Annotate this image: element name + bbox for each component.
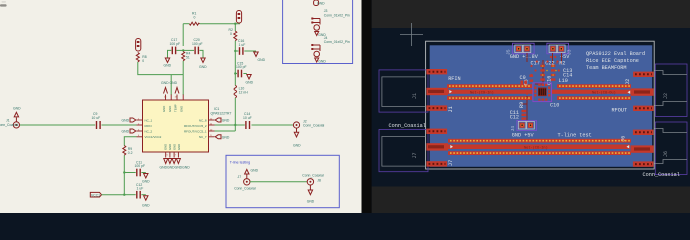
svg-text:T-line testing: T-line testing — [230, 160, 250, 164]
svg-text:GNDGNDGNDGND: GNDGNDGNDGND — [160, 166, 191, 170]
schematic background — [0, 0, 362, 213]
svg-text:Net-(C6-In): Net-(C6-In) — [524, 145, 548, 150]
connector J2 pads — [631, 72, 654, 111]
svg-text:Team BEAMFORM: Team BEAMFORM — [586, 65, 626, 71]
wire vcc1 — [102, 194, 125, 196]
wire output rf — [215, 124, 245, 126]
IC top pin names vertical — [162, 104, 183, 112]
connector J7 pads — [426, 129, 448, 167]
capacitor C12 — [136, 183, 143, 199]
svg-text:0: 0 — [194, 16, 196, 20]
pcb toolbar band top — [372, 0, 690, 28]
svg-text:J1: J1 — [448, 106, 454, 112]
connector J4 pads (GND +5V bottom) — [517, 120, 537, 130]
ground at J1 — [13, 107, 21, 117]
svg-text:GND: GND — [258, 58, 266, 62]
yellow silk dots — [542, 65, 557, 76]
svg-text:J2: J2 — [663, 93, 669, 99]
svg-text:10 uF: 10 uF — [243, 116, 252, 120]
svg-text:GND GND: GND GND — [161, 81, 178, 85]
svg-text:NC_7: NC_7 — [199, 135, 207, 139]
wire to IC top pin — [170, 75, 172, 95]
svg-text:100 pF: 100 pF — [192, 42, 203, 46]
wire R4 bottom to rail — [182, 61, 184, 95]
svg-text:Conn_Coaxial: Conn_Coaxial — [0, 123, 19, 127]
IC bottom pins — [166, 152, 179, 158]
svg-text:TEMP: TEMP — [174, 104, 178, 112]
IC pin names left — [145, 118, 162, 139]
svg-text:J8: J8 — [317, 179, 321, 183]
svg-text:GND: GND — [168, 106, 172, 112]
ground at J7 — [245, 168, 259, 174]
ground under C20 — [199, 58, 207, 69]
rf line right via fence top — [557, 84, 631, 88]
svg-text:QPAS9122 Eval Board: QPAS9122 Eval Board — [586, 51, 645, 57]
top-left smudge — [0, 4, 7, 6]
svg-text:C12: C12 — [510, 115, 519, 121]
cursor crosshair — [400, 23, 423, 46]
svg-text:RFIN: RFIN — [145, 124, 152, 128]
svg-text:VCC1: VCC1 — [91, 193, 100, 197]
svg-text:J1: J1 — [6, 119, 10, 123]
J1 fab body outline — [382, 77, 426, 107]
svg-text:GND: GND — [317, 2, 325, 6]
svg-text:GND: GND — [307, 200, 315, 204]
svg-text:Conn_01x02_Pin: Conn_01x02_Pin — [324, 13, 350, 17]
svg-text:GND: GND — [162, 106, 166, 112]
svg-text:GND: GND — [246, 81, 254, 85]
rf line left via fence bottom — [447, 96, 532, 100]
svg-text:RFOUT/VCC5_1: RFOUT/VCC5_1 — [184, 129, 207, 133]
rf line left via fence top — [447, 84, 532, 88]
connector J5 pads — [513, 43, 535, 54]
net arrow J2 — [628, 91, 631, 94]
svg-text:51: 51 — [186, 56, 190, 60]
junction rail / R2 — [234, 23, 236, 25]
connector J2 coaxial — [293, 119, 324, 132]
junction C15 — [234, 72, 236, 74]
svg-text:GND: GND — [168, 144, 172, 150]
svg-text:GND: GND — [164, 144, 168, 150]
junction C16 — [234, 50, 236, 52]
svg-text:NC_1: NC_1 — [145, 118, 153, 122]
wire c15 stub — [235, 73, 237, 75]
connector J3 — [311, 9, 350, 37]
svg-text:1 uF: 1 uF — [239, 43, 246, 47]
ground right of C16 — [254, 52, 266, 62]
capacitor C16 — [238, 39, 245, 55]
window divider strip — [362, 0, 372, 213]
hierarchical label VCC1 — [90, 192, 101, 197]
svg-text:12 nH: 12 nH — [239, 91, 249, 95]
IC center thermal pad — [538, 88, 547, 97]
board edge cuts outline — [426, 41, 655, 169]
svg-text:RFIN: RFIN — [448, 76, 460, 82]
ground at J2 — [293, 132, 301, 147]
pcb canvas background — [372, 0, 690, 213]
svg-text:L10: L10 — [559, 78, 568, 84]
net arrow J1 — [449, 90, 452, 93]
svg-text:NC_8: NC_8 — [199, 118, 207, 122]
t-line trace — [448, 144, 630, 149]
IC right pins — [209, 120, 215, 137]
inductor L10 — [234, 85, 248, 97]
svg-text:100 pF: 100 pF — [170, 42, 181, 46]
svg-text:RFOUT/VCC5_2: RFOUT/VCC5_2 — [184, 124, 207, 128]
svg-text:C10: C10 — [550, 103, 559, 109]
svg-text:GND: GND — [179, 106, 183, 112]
wire c11 stub — [124, 172, 135, 174]
wire pin10 to branch — [215, 130, 236, 132]
svg-text:J7: J7 — [412, 152, 418, 158]
gnd top partial — [314, 0, 325, 6]
decoupling cluster traces — [521, 53, 562, 121]
junction C11 — [123, 171, 125, 173]
connector J7 coaxial — [234, 175, 256, 191]
svg-text:0.2: 0.2 — [128, 151, 133, 155]
svg-text:R2: R2 — [559, 61, 565, 67]
net arrow J6 — [627, 145, 630, 148]
svg-text:GND: GND — [13, 107, 21, 111]
rf line right via fence bottom — [557, 96, 631, 100]
svg-text:NC_2: NC_2 — [145, 129, 153, 133]
svg-text:Conn_Coaxial: Conn_Coaxial — [303, 124, 325, 128]
svg-text:GND: GND — [122, 130, 130, 134]
svg-text:GND: GND — [222, 135, 230, 139]
svg-text:GND: GND — [122, 119, 130, 123]
svg-text:GND: GND — [173, 144, 177, 150]
connector J3 pads (+5V) — [547, 43, 569, 54]
J6 fab body outline — [655, 129, 688, 164]
svg-text:J1: J1 — [412, 93, 418, 99]
svg-text:Conn_Coaxial: Conn_Coaxial — [302, 174, 324, 178]
wire branch down to output — [234, 98, 236, 131]
connector J6 pads — [631, 130, 654, 167]
svg-text:GND: GND — [164, 64, 172, 68]
svg-text:Conn_Coaxial: Conn_Coaxial — [389, 123, 426, 129]
svg-text:GND: GND — [318, 59, 326, 63]
resistor R4 — [182, 52, 191, 61]
J7 fab body outline — [382, 137, 426, 167]
ground at J8 — [307, 190, 315, 204]
capacitor C9 pads — [521, 81, 527, 85]
gnd labels at IC left pins — [122, 118, 136, 134]
svg-text:Net-(C9-In): Net-(C9-In) — [470, 90, 494, 95]
svg-text:J7: J7 — [238, 175, 242, 179]
svg-text:GND: GND — [177, 144, 181, 150]
resistor R8 — [136, 53, 146, 64]
svg-text:GND: GND — [142, 180, 150, 184]
ground right of C12 — [142, 196, 150, 208]
wire vcc branch — [124, 137, 136, 146]
J1 courtyard purple — [379, 70, 428, 112]
power connectors box — [283, 0, 353, 64]
connector J8 coaxial — [302, 174, 324, 190]
svg-text:100 pF: 100 pF — [135, 164, 146, 168]
IC bottom pin names vertical — [164, 144, 182, 150]
wire R2 to branch — [234, 41, 236, 86]
IC pin numbers — [138, 97, 213, 157]
svg-text:GND: GND — [142, 204, 150, 208]
power flag above R8 — [136, 39, 141, 52]
rf line right trace — [552, 90, 631, 94]
svg-text:J6: J6 — [621, 136, 627, 142]
wire c16 stub — [235, 50, 238, 52]
stray vias — [526, 56, 560, 100]
svg-text:100 pF: 100 pF — [236, 65, 247, 69]
IC pin names right — [184, 118, 207, 139]
svg-text:GND +1.8V: GND +1.8V — [510, 54, 539, 60]
wire c17 stub — [176, 49, 183, 51]
board copper zone fill — [430, 45, 653, 167]
net arrow J7 — [450, 145, 453, 148]
capacitor C9 — [92, 112, 101, 129]
wire rail to R2 — [234, 24, 236, 31]
svg-text:J2: J2 — [625, 79, 631, 85]
rf line left trace — [447, 90, 533, 94]
capacitor C15 — [236, 62, 247, 78]
svg-text:IC1: IC1 — [214, 107, 219, 111]
svg-text:GND: GND — [251, 168, 259, 172]
junction output — [234, 124, 236, 126]
ground right of C15 — [246, 75, 254, 85]
t-line via fence bottom — [448, 151, 631, 155]
svg-text:GND: GND — [222, 119, 230, 123]
svg-text:Net-(C8-Ou): Net-(C8-Ou) — [592, 90, 616, 95]
resistor R6 pads — [530, 75, 534, 82]
resistor R2 — [229, 28, 237, 41]
gnd symbols at IC bottom pins — [160, 159, 191, 170]
resistor R1 — [189, 12, 199, 26]
IC U1 body — [143, 100, 209, 152]
connector J1 coaxial — [0, 118, 20, 129]
svg-text:J6: J6 — [663, 151, 669, 157]
svg-text:GND +5V: GND +5V — [512, 133, 535, 139]
capacitor C11 — [135, 161, 146, 177]
J6 courtyard purple — [655, 122, 687, 175]
wire c20 stub — [183, 49, 194, 51]
svg-text:0: 0 — [230, 32, 232, 36]
capacitor C14 — [243, 112, 252, 129]
capacitor C17 — [170, 38, 181, 54]
svg-text:Conn_01x02_Pin: Conn_01x02_Pin — [324, 40, 350, 44]
wire tline — [250, 181, 307, 183]
power flag above R2 — [236, 11, 241, 24]
junction C17/C20 — [182, 49, 184, 51]
svg-text:J7: J7 — [448, 160, 454, 166]
svg-text:QPA9122TR7: QPA9122TR7 — [211, 112, 232, 116]
gnd labels at IC right pins — [215, 118, 230, 139]
svg-text:T-line test: T-line test — [558, 133, 592, 139]
wire input rf — [20, 124, 95, 126]
IC top pins — [166, 95, 184, 101]
pcb status band bottom — [372, 187, 690, 214]
IC left pins — [137, 120, 143, 137]
T-line testing box — [226, 155, 339, 207]
wire R9 down — [123, 155, 125, 194]
J2 courtyard purple — [655, 64, 687, 117]
svg-text:Conn_Coaxial: Conn_Coaxial — [643, 172, 680, 178]
wire from R8 down and right — [138, 62, 183, 75]
resistor R9 — [123, 146, 133, 156]
svg-text:GND: GND — [199, 65, 207, 69]
J2 fab body outline — [655, 71, 688, 106]
top rail wire — [183, 23, 189, 25]
ground under C17 — [164, 58, 172, 68]
t-line via fence top — [448, 139, 631, 143]
svg-text:0: 0 — [142, 59, 144, 63]
junction C12 — [123, 194, 125, 196]
svg-text:Rice ECE Capstone: Rice ECE Capstone — [586, 58, 639, 64]
connector J4 — [311, 36, 350, 64]
svg-text:RFOUT: RFOUT — [612, 108, 628, 114]
svg-text:GND: GND — [293, 144, 301, 148]
J7 courtyard purple — [379, 130, 428, 172]
gnd labels at IC top pins — [161, 81, 179, 94]
small passives pads — [522, 65, 556, 120]
ground right of C11 — [142, 174, 150, 184]
connector J1 pads — [426, 69, 448, 111]
svg-text:10 uF: 10 uF — [92, 116, 101, 120]
svg-text:R9: R9 — [519, 102, 525, 108]
IC U1 footprint — [533, 83, 552, 102]
capacitor C20 — [192, 38, 203, 54]
wire — [102, 124, 137, 126]
wire c12 stub — [124, 194, 135, 196]
svg-text:Conn_Coaxial: Conn_Coaxial — [234, 187, 256, 191]
svg-text:VCC1/VCC2: VCC1/VCC2 — [145, 135, 162, 139]
svg-text:J4: J4 — [510, 126, 516, 132]
svg-text:1 uF: 1 uF — [137, 187, 144, 191]
